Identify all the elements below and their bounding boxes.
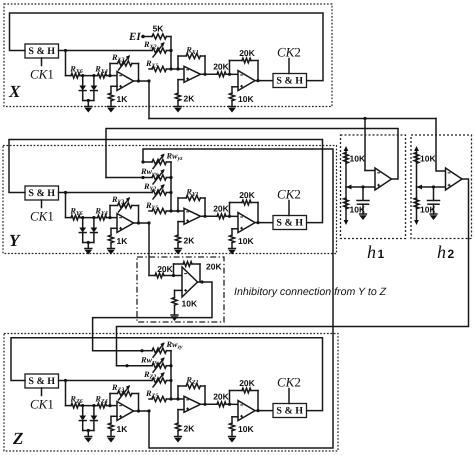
wire UX2 out: [201, 73, 218, 75]
resistor RX1 feedback UX2: [177, 56, 179, 69]
op-amp UZ1: [117, 402, 134, 421]
resistor 10K h2 lower: [414, 198, 419, 209]
resistor RY6: [66, 217, 72, 219]
ground diodes Y: [85, 248, 92, 250]
resistor RZ3 (variable) feedback UZ1: [109, 394, 111, 406]
wire Y state output to inhibitory block: [148, 223, 150, 276]
svg-text:1K: 1K: [117, 236, 129, 246]
diode DY2: [93, 218, 95, 228]
wire diode common Z: [83, 430, 94, 432]
svg-text:10K: 10K: [238, 424, 254, 434]
resistor RX6: [66, 75, 72, 77]
svg-text:EI: EI: [128, 31, 141, 43]
node RWzx terminal: [125, 364, 128, 367]
diode DZ2: [93, 406, 95, 416]
op-amp h1: [375, 168, 392, 190]
wire h2 reference to op-amp: [417, 186, 446, 188]
svg-text:20K: 20K: [213, 392, 229, 402]
ground 10K Z: [229, 436, 236, 438]
h2 block dotted box: [411, 135, 472, 239]
node Z summing vertical junction: [169, 379, 172, 382]
wire EI vertical to summing node: [170, 37, 172, 70]
resistor 2K Y to ground: [178, 221, 184, 223]
node h2 capacitor tap: [432, 185, 435, 188]
wire UY3 out to S&H: [255, 222, 273, 224]
svg-text:CK1: CK1: [30, 67, 54, 82]
svg-text:S & H: S & H: [276, 76, 303, 87]
S&H Y input sample-hold CK1: [25, 186, 59, 200]
resistor 10K h2 upper: [414, 153, 419, 164]
node diode tap 1 Z: [81, 404, 84, 407]
CK1 tick Y: [41, 200, 43, 208]
wire S&H Z output to node: [59, 380, 153, 382]
resistor RWzx (variable) x-to-z weight: [117, 365, 153, 367]
resistor 1K Z to ground: [111, 415, 117, 417]
wire UY2 out: [201, 215, 218, 217]
CK2 tick Y: [288, 201, 290, 216]
node diode tap 2 Y: [92, 216, 95, 219]
node inhibitory output: [200, 280, 203, 283]
svg-text:S & H: S & H: [28, 188, 55, 199]
op-amp UZ2: [184, 396, 201, 412]
resistor RZ5: [149, 398, 152, 400]
ground inhibitory: [171, 314, 178, 316]
resistor RZ4: [98, 403, 107, 408]
node UY1 output fb: [137, 221, 140, 224]
svg-text:10K: 10K: [238, 236, 254, 246]
resistor 2K X to ground: [178, 79, 184, 81]
S&H X input sample-hold CK1: [25, 44, 59, 58]
capacitor C2 h2: [433, 187, 435, 200]
node Z op2 input junction b: [176, 397, 179, 400]
wiper arrow h2: [417, 185, 423, 190]
op-amp UY2: [184, 208, 201, 224]
op-amp UY3: [238, 213, 255, 233]
ground diodes X: [85, 106, 92, 108]
svg-text:S & H: S & H: [28, 46, 55, 57]
wiper arrow h1: [346, 185, 352, 190]
op-amp h2: [446, 168, 463, 190]
resistor 1K X to ground: [111, 85, 117, 87]
node RWzy left terminal: [140, 349, 143, 352]
ground 2K X: [175, 106, 182, 108]
resistor RY2 (variable): [152, 190, 166, 195]
wire Y input drop: [65, 193, 67, 218]
resistor RWyx (variable) x-to-y weight: [106, 177, 152, 179]
wire inhibitory output to RWzy: [93, 282, 212, 351]
svg-text:Y: Y: [9, 231, 21, 250]
node UY1 inverting input: [108, 216, 111, 219]
op-amp UX2: [184, 66, 201, 82]
node X op2 input junction b: [176, 67, 179, 70]
resistor RX5: [149, 68, 152, 70]
wire h2 input drop: [436, 119, 446, 172]
svg-text:CK2: CK2: [277, 187, 301, 202]
node UX1 output fb: [137, 79, 140, 82]
wire UY1 output: [134, 222, 150, 224]
ground diodes Z: [85, 436, 92, 438]
S&H Z output sample-hold CK2: [273, 404, 307, 418]
resistor 10K inhibitory to ground: [175, 289, 183, 291]
svg-text:5K: 5K: [153, 24, 165, 34]
node UY2 output fb: [203, 215, 206, 218]
wire Z feedback loop S&H out to S&H in: [11, 338, 323, 411]
resistor RWyz (variable) z-to-y weight: [143, 161, 152, 163]
ground 1K X: [108, 106, 115, 108]
inhibitory block dash-dot box: [137, 257, 224, 322]
wire S&H X output to node: [59, 50, 153, 52]
resistor RZ6: [66, 405, 72, 407]
svg-text:1K: 1K: [117, 424, 129, 434]
svg-text:CK1: CK1: [30, 209, 54, 224]
node UX2 output fb: [203, 73, 206, 76]
node UZ1 output fb: [137, 409, 140, 412]
resistor 10K h1 lower: [344, 198, 349, 209]
resistor 20K Y series: [217, 214, 226, 219]
svg-text:10K: 10K: [420, 154, 436, 164]
node diode tap 1 X: [81, 74, 84, 77]
resistor RX2 (variable): [152, 48, 166, 53]
resistor 20K Z feedback UZ3: [229, 391, 231, 405]
CK1 tick X: [41, 58, 43, 66]
resistor 10K Z to ground: [232, 416, 238, 418]
wire Y feedback loop S&H out to S&H in: [9, 140, 323, 223]
node diode tap 2 Z: [92, 404, 95, 407]
wire h2 output to RWzx: [117, 179, 469, 366]
node UX1 output state: [147, 79, 150, 82]
diode DZ1: [82, 406, 84, 416]
node Y op2 input junction a: [169, 209, 172, 212]
op-amp inhibitory U4: [182, 267, 198, 297]
node UY3 input: [228, 215, 231, 218]
ground 2K Y: [175, 248, 182, 250]
svg-text:10K: 10K: [350, 154, 366, 164]
svg-text:2K: 2K: [184, 93, 196, 103]
svg-text:20K: 20K: [239, 48, 255, 58]
svg-text:S & H: S & H: [28, 376, 55, 387]
node diode tap 1 Y: [81, 216, 84, 219]
svg-text:20K: 20K: [157, 264, 173, 274]
wire UZ3 out to S&H: [255, 410, 273, 412]
ground 10K X: [229, 106, 236, 108]
wire diode common Y: [83, 242, 94, 244]
resistor 20K X feedback UX3: [229, 61, 231, 75]
wire Y summing vertical: [170, 162, 172, 211]
ground capacitor h1: [360, 213, 367, 215]
node UX1 inverting input: [108, 74, 111, 77]
diode DY1: [82, 218, 84, 228]
svg-text:CK1: CK1: [30, 397, 54, 412]
svg-text:20K: 20K: [213, 204, 229, 214]
svg-text:2K: 2K: [184, 423, 196, 433]
wire h1 reference to op-amp: [346, 186, 375, 188]
node X summing vertical junction: [169, 49, 172, 52]
S&H Y output sample-hold CK2: [273, 216, 307, 230]
node X S&H out junction: [64, 49, 67, 52]
cell Z dashed box: [4, 334, 338, 452]
resistor RY4: [98, 215, 107, 220]
svg-text:20K: 20K: [239, 378, 255, 388]
ground capacitor h2: [430, 213, 437, 215]
resistor 2K Z to ground: [178, 409, 184, 411]
wire h1 output to RWyx: [106, 129, 398, 180]
ground 2K Z: [175, 436, 182, 438]
resistor RY5: [149, 210, 152, 212]
resistor 10K Y to ground: [232, 228, 238, 230]
node UY3 output fb: [256, 221, 259, 224]
node UZ3 output fb: [256, 409, 259, 412]
node UY1 output state: [147, 221, 150, 224]
wire UZ1 output: [134, 410, 150, 412]
svg-text:20K: 20K: [206, 262, 222, 272]
node UX3 output fb: [256, 79, 259, 82]
svg-text:20K: 20K: [213, 62, 229, 72]
node X op2 input junction a: [169, 67, 172, 70]
capacitor C1 h1: [362, 187, 364, 200]
svg-text:CK2: CK2: [277, 375, 301, 390]
wire S&H Y output to node: [59, 192, 153, 194]
resistor RX3 (variable) feedback UX1: [109, 64, 111, 76]
diode DX1: [82, 76, 84, 86]
svg-text:Inhibitory connection from Y t: Inhibitory connection from Y to Z: [234, 286, 387, 298]
svg-text:2K: 2K: [184, 235, 196, 245]
node RWyz left terminal: [141, 160, 144, 163]
node h1 input tap: [363, 117, 366, 120]
node RWzx junction: [169, 364, 172, 367]
op-amp UY1: [117, 214, 134, 233]
node diode tap 2 X: [92, 74, 95, 77]
node Y summing vertical junction: [169, 191, 172, 194]
svg-text:10K: 10K: [182, 299, 198, 309]
S&H X output sample-hold CK2: [273, 74, 307, 88]
wire X output rail to h1 h2: [149, 118, 436, 120]
op-amp UZ3: [238, 401, 255, 421]
node Y op2 input junction b: [176, 209, 179, 212]
wire h1 input drop: [364, 119, 366, 171]
S&H Z input sample-hold CK1: [25, 374, 59, 388]
CK2 tick X: [288, 59, 290, 74]
svg-text:10K: 10K: [238, 94, 254, 104]
svg-text:S & H: S & H: [276, 218, 303, 229]
wire UX3 out to S&H: [255, 80, 273, 82]
wire X input drop: [65, 51, 67, 76]
op-amp UX3: [238, 71, 255, 91]
resistor RY3 (variable) feedback UY1: [109, 206, 111, 218]
resistor 1K Y to ground: [111, 227, 117, 229]
node inhibitory op input: [172, 274, 175, 277]
resistor RWzy (variable) y-to-z weight: [142, 350, 152, 352]
resistor 20K inhibitory feedback: [173, 264, 175, 276]
diode DX2: [93, 76, 95, 86]
resistor 20K Y feedback UY3: [229, 203, 231, 217]
h1 block dotted box: [341, 135, 406, 239]
svg-text:20K: 20K: [239, 190, 255, 200]
node Z op2 input junction a: [169, 397, 172, 400]
node UX3 input: [228, 73, 231, 76]
wire diode common X: [83, 100, 94, 102]
potentiometer h1 supply line: [345, 151, 347, 220]
wire UZ2 out: [201, 403, 218, 405]
node RWyx terminal: [141, 176, 144, 179]
resistor RX4: [98, 73, 107, 78]
node UZ2 output fb: [203, 403, 206, 406]
svg-text:X: X: [8, 82, 21, 101]
wire Z state output to RWyz riser: [143, 149, 333, 448]
node RWyx junction: [169, 176, 172, 179]
node EI terminal: [141, 35, 145, 39]
resistor 20K Z series: [217, 402, 226, 407]
wire X feedback loop S&H out to S&H in: [10, 13, 324, 81]
ground 1K Z: [108, 436, 115, 438]
node RX2 junction: [169, 49, 172, 52]
svg-text:1K: 1K: [117, 94, 129, 104]
resistor RY1 feedback UY2: [177, 198, 179, 211]
resistor RZ2 (variable): [152, 378, 166, 383]
svg-text:CK2: CK2: [277, 45, 301, 60]
CK1 tick Z: [41, 388, 43, 396]
wire UX1 output: [134, 80, 150, 82]
ground 1K Y: [108, 248, 115, 250]
node UZ1 output state: [147, 409, 150, 412]
ground 10K Y: [229, 248, 236, 250]
potentiometer h2 supply line: [416, 151, 418, 220]
svg-text:S & H: S & H: [276, 406, 303, 417]
wire Z input drop: [65, 381, 67, 406]
node Z S&H out junction: [64, 379, 67, 382]
node Y S&H out junction: [64, 191, 67, 194]
resistor 10K X to ground: [232, 86, 238, 88]
cell Y dashed box: [3, 146, 337, 254]
wire X state output drop: [148, 81, 150, 119]
resistor 20K X series: [217, 72, 226, 77]
resistor RZ1 feedback UZ2: [177, 386, 179, 399]
resistor 5K EI input: [143, 36, 152, 38]
cell X dashed box: [4, 4, 332, 107]
CK2 tick Z: [288, 389, 290, 404]
node UZ1 inverting input: [108, 404, 111, 407]
wire Z summing vertical: [170, 351, 172, 399]
node h1 capacitor tap: [361, 185, 364, 188]
node UZ3 input: [228, 403, 231, 406]
resistor 10K h1 upper: [344, 153, 349, 164]
op-amp UX1: [117, 72, 134, 91]
svg-text:Z: Z: [12, 429, 23, 448]
resistor 20K inhibitory input: [149, 275, 155, 277]
